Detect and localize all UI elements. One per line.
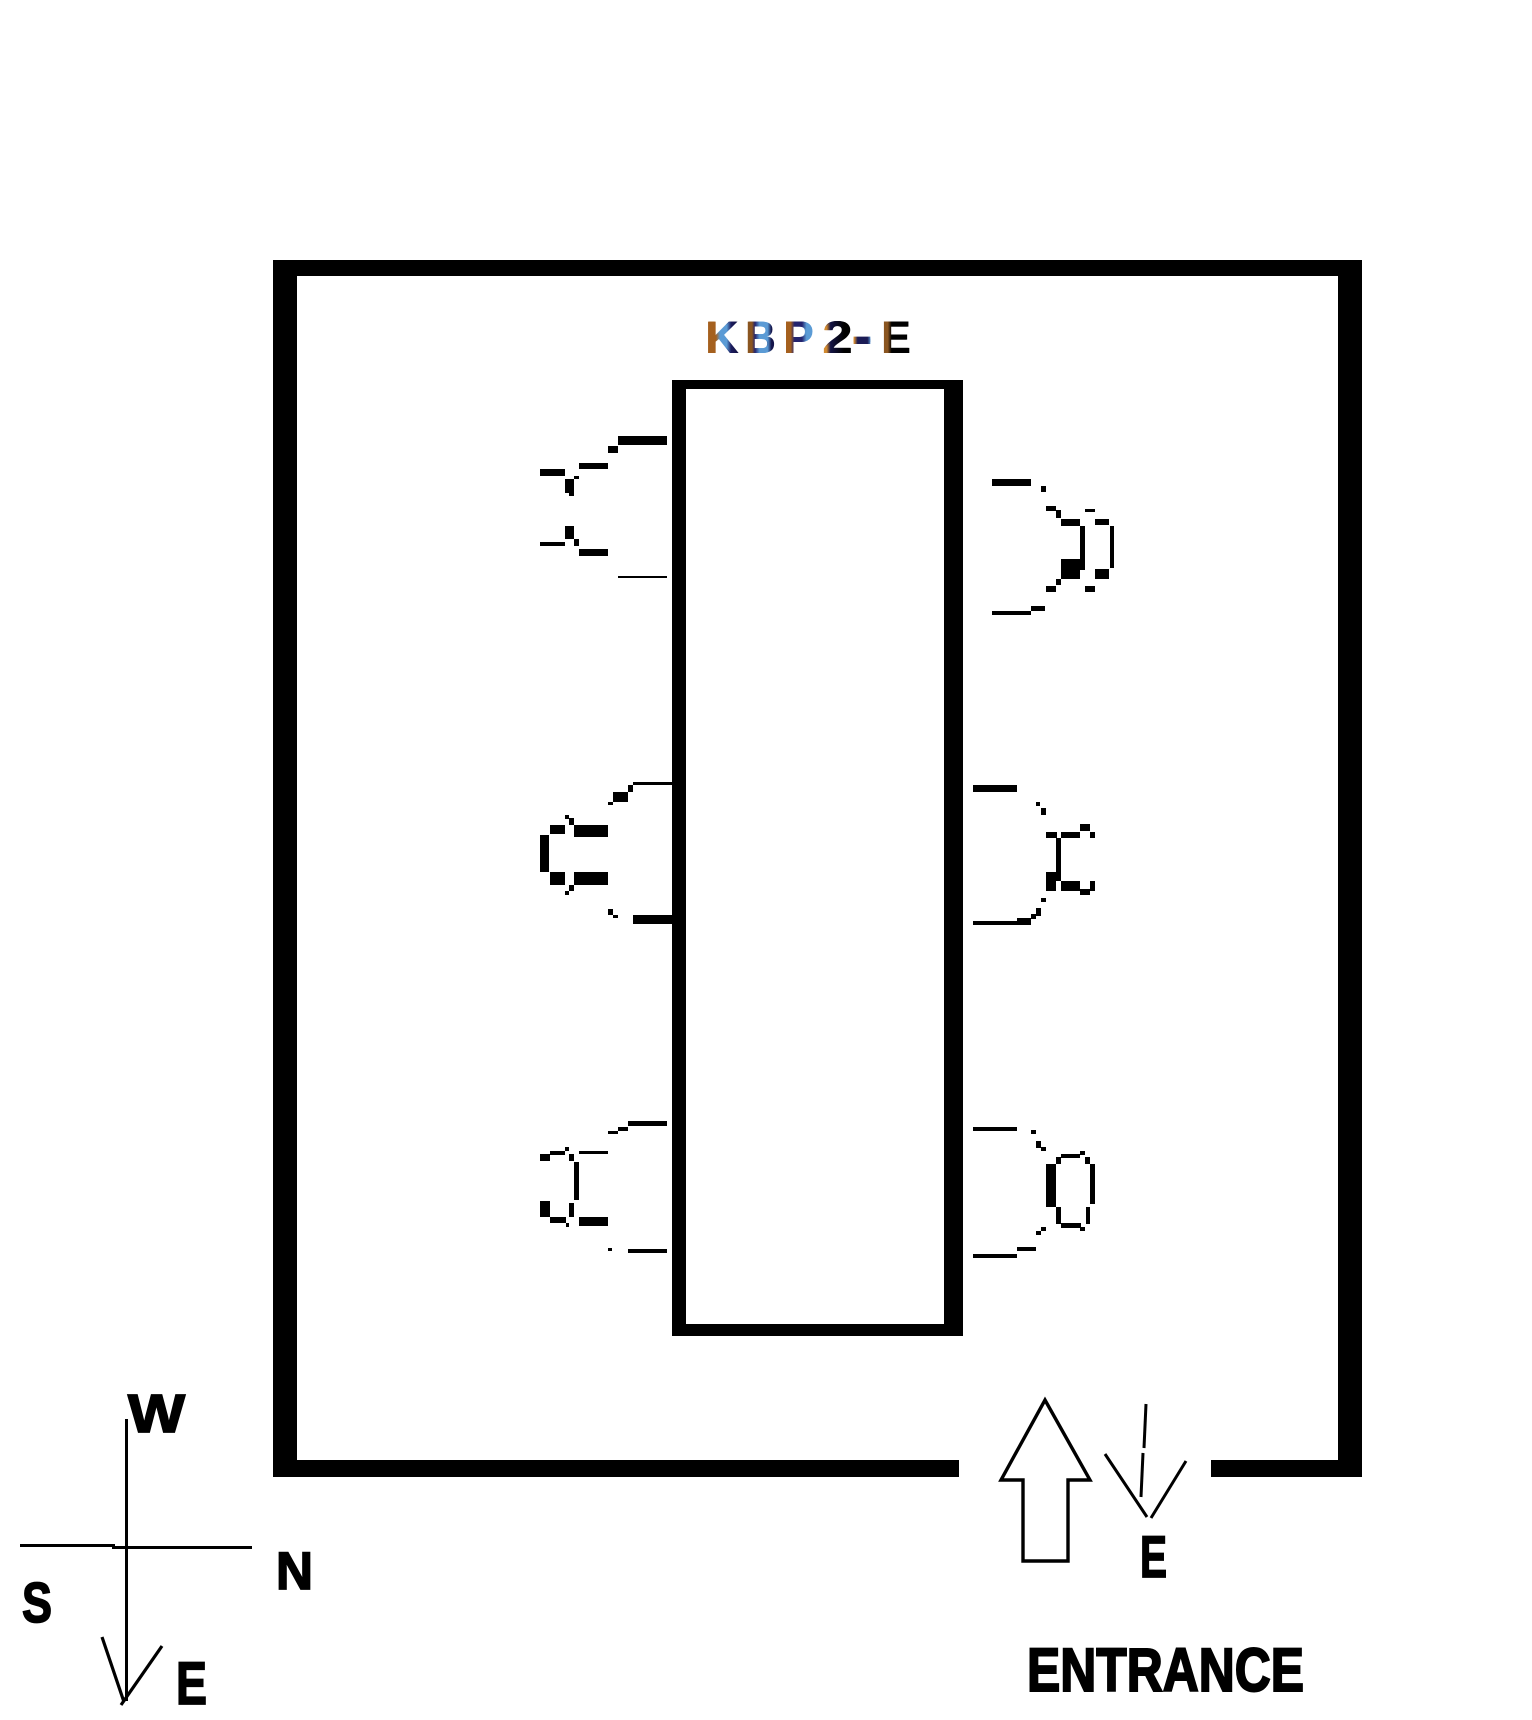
chair left 2 (dashed chair outline fragments) <box>540 782 672 924</box>
room outer wall: left side <box>273 260 297 1477</box>
svg-text:K: K <box>706 312 740 363</box>
svg-text:S: S <box>22 1571 52 1635</box>
svg-text:-: - <box>851 310 873 361</box>
chair right 2 (dashed chair outline fragments) <box>973 785 1095 925</box>
compass horizontal axis line (S to N) <box>20 1544 252 1549</box>
svg-text:W: W <box>128 1384 185 1444</box>
svg-text:N: N <box>276 1542 313 1601</box>
entrance thin arrow pointing down (out), drawn with broken strokes <box>1105 1404 1186 1518</box>
svg-text:E: E <box>882 312 911 363</box>
chair right 3 (dashed chair outline fragments) <box>973 1127 1095 1258</box>
svg-text:E: E <box>1140 1525 1167 1590</box>
svg-text:B: B <box>746 312 776 363</box>
svg-text:E: E <box>176 1650 207 1717</box>
room outer wall: bottom side, left segment (up to entrance gap) <box>273 1460 959 1477</box>
conference table (tall rectangle with thick border) <box>672 380 963 1336</box>
svg-text:2: 2 <box>823 312 853 363</box>
svg-text:ENTRANCE: ENTRANCE <box>1027 1636 1304 1704</box>
room outer wall: top side <box>273 260 1362 276</box>
chair left 3 (dashed chair outline fragments) <box>540 1121 667 1253</box>
entrance block arrow pointing up into the room <box>1001 1400 1090 1561</box>
room outer wall: right side <box>1338 260 1362 1477</box>
chair left 1 (dashed chair outline fragments) <box>540 436 667 578</box>
room outer wall: bottom side, right segment (after entrance gap) <box>1211 1460 1362 1477</box>
room label KBP2-E <box>705 310 911 363</box>
svg-text:P: P <box>784 312 814 363</box>
compass arrowhead pointing E (down) <box>102 1637 162 1705</box>
chair right 1 (dashed chair outline fragments) <box>992 479 1114 615</box>
compass vertical axis line (W to E) <box>125 1419 128 1701</box>
